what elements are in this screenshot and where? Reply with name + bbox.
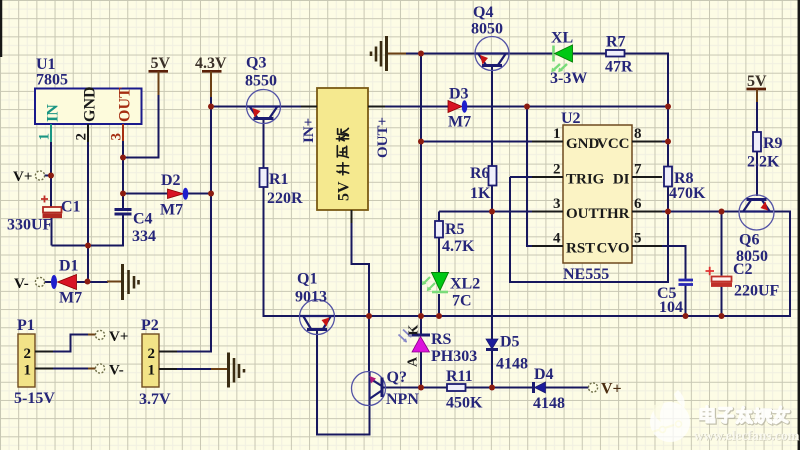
diode D3 M7 xyxy=(448,101,462,113)
svg-text:U1: U1 xyxy=(36,56,56,73)
diode D5 4148 xyxy=(486,339,498,349)
wire Vplus-port-stub xyxy=(45,175,52,177)
svg-text:330UF: 330UF xyxy=(7,217,53,234)
wire rail-4.3V-to-board-IN xyxy=(211,106,317,108)
svg-text:7: 7 xyxy=(634,162,642,178)
svg-text:D3: D3 xyxy=(449,86,469,103)
svg-text:V-: V- xyxy=(14,276,29,292)
U2 pin 1 GND xyxy=(532,141,563,143)
op-amp U1 7805 regulator box xyxy=(35,89,142,125)
wire Qx-base-to-R11 xyxy=(383,387,447,389)
svg-text:OUT: OUT xyxy=(117,87,134,122)
power rail 4.3V xyxy=(202,70,222,73)
power rail 5V (left) xyxy=(149,70,169,73)
svg-text:1: 1 xyxy=(148,363,156,379)
resistor R9 2.2K xyxy=(753,132,761,152)
ground (under P2) xyxy=(227,353,230,388)
svg-text:V+: V+ xyxy=(601,381,622,398)
svg-text:7805: 7805 xyxy=(36,72,68,89)
svg-text:4148: 4148 xyxy=(533,395,565,412)
U2 pin 7 DI xyxy=(632,176,662,178)
transistor Q6 8050 xyxy=(739,195,774,230)
wire board-bottom-jog xyxy=(352,222,370,316)
wire C4-bottom-left xyxy=(52,215,124,246)
resistor R1 220R xyxy=(260,168,268,187)
wire D3-net-to-RST xyxy=(527,107,532,247)
U2 pin 8 VCC xyxy=(632,141,662,143)
svg-text:NPN: NPN xyxy=(386,391,419,408)
junction at 721.5,316 xyxy=(719,313,725,319)
wire C5-to-rail xyxy=(685,286,687,317)
diode D2 M7 xyxy=(168,189,184,199)
svg-text:Q3: Q3 xyxy=(246,55,266,72)
U1 pin 3 OUT xyxy=(122,124,124,141)
wire D2-right xyxy=(184,193,211,195)
svg-text:Q?: Q? xyxy=(387,369,407,386)
svg-text:6: 6 xyxy=(634,196,642,212)
transistor Q4 8050 xyxy=(475,37,509,71)
svg-text:1: 1 xyxy=(553,126,561,142)
svg-text:2.2K: 2.2K xyxy=(747,154,780,171)
connector P1 xyxy=(18,334,35,387)
svg-text:450K: 450K xyxy=(446,395,483,412)
module 5V boost board xyxy=(317,88,368,210)
IC U2 NE555 xyxy=(563,125,632,263)
photodiode RS PH303 xyxy=(412,334,431,337)
svg-text:XL: XL xyxy=(551,30,573,47)
wire R8-bottom xyxy=(667,187,669,212)
wire Q4-to-XL xyxy=(509,53,553,55)
junction at 421,316 xyxy=(418,313,424,319)
svg-text:4: 4 xyxy=(553,231,561,247)
svg-text:M7: M7 xyxy=(59,290,82,307)
wire C1-bottom-down xyxy=(51,218,53,246)
svg-text:V-: V- xyxy=(109,363,124,379)
svg-text:PH303: PH303 xyxy=(431,348,477,365)
wire R5-to-XL2 xyxy=(438,238,440,273)
resistor R7 47R xyxy=(606,50,625,57)
svg-text:OUT+: OUT+ xyxy=(375,117,391,158)
junction at 123,157.5 xyxy=(120,155,126,161)
wire VCC-stub-right xyxy=(662,141,668,143)
wire Q1-emitter-loop xyxy=(317,331,370,435)
wire THR-to-Q6 xyxy=(662,211,739,213)
wire CVO-to-C5 xyxy=(662,246,686,279)
wire XL2-to-rail xyxy=(438,294,440,316)
svg-text:220UF: 220UF xyxy=(734,283,780,300)
svg-text:R7: R7 xyxy=(606,34,626,51)
ground (top, near Q4) xyxy=(385,36,388,71)
svg-text:5V: 5V xyxy=(151,55,171,72)
capacitor C2 220UF polarized xyxy=(706,267,715,275)
capacitor C5 104 xyxy=(679,279,694,282)
junction at 668,106.5 xyxy=(665,104,671,110)
svg-text:8050: 8050 xyxy=(471,21,503,38)
svg-text:Q4: Q4 xyxy=(473,4,493,21)
wire C2-top xyxy=(721,212,723,276)
svg-text:3: 3 xyxy=(109,133,125,141)
svg-text:3-3W: 3-3W xyxy=(550,70,587,87)
svg-text:GND: GND xyxy=(82,86,99,122)
watermark logo elecfans xyxy=(650,390,690,442)
svg-text:C4: C4 xyxy=(133,211,153,228)
junction at 211,193.5 xyxy=(208,191,214,197)
ground (left, near D1) xyxy=(121,264,124,300)
resistor R6 1K xyxy=(489,166,497,186)
wire top-rail-gnd-to-Q4 xyxy=(405,53,475,55)
svg-text:D2: D2 xyxy=(161,172,181,189)
junction at 421,141.5 xyxy=(418,139,424,145)
svg-text:THR: THR xyxy=(597,206,630,222)
junction at 88,245.5 xyxy=(85,243,91,249)
LED XL 3-3W xyxy=(552,46,555,62)
capacitor C4 334 xyxy=(115,208,132,211)
wire brown stubs near ports xyxy=(88,335,96,369)
wire rail-y316-common xyxy=(335,212,791,317)
U2 pin 6 THR xyxy=(632,211,662,213)
wire 5V-drop-to-U1-out xyxy=(123,94,159,158)
junction at 439,316 xyxy=(436,313,442,319)
wire Qx-collector-from-rail xyxy=(368,316,370,372)
diode D4 4148 xyxy=(532,382,535,393)
border frame artifact right edge xyxy=(798,0,800,450)
svg-text:104: 104 xyxy=(659,299,683,316)
ports V+/V- circles xyxy=(35,171,44,180)
wire U1-pin1-down xyxy=(50,141,52,207)
transistor Q? NPN xyxy=(352,372,386,406)
U1 pin 1 IN xyxy=(50,124,52,142)
wire rail-x211-down-to-P2 xyxy=(159,96,211,352)
wire board-OUT-to-D3 xyxy=(368,106,448,108)
junction at 527,106.5 xyxy=(524,104,530,110)
svg-text:DI: DI xyxy=(613,172,630,188)
wire TRIG-stub xyxy=(510,176,532,178)
junction at 87.5,281.5 xyxy=(85,279,91,285)
svg-text:1K: 1K xyxy=(470,185,491,202)
svg-text:U2: U2 xyxy=(561,110,581,127)
wire D1-to-gnd xyxy=(77,281,108,283)
svg-text:9013: 9013 xyxy=(295,289,327,306)
connector P2 xyxy=(142,334,159,387)
svg-text:R9: R9 xyxy=(763,135,783,152)
wire D2-left xyxy=(123,193,167,195)
svg-text:www.elecfans.com: www.elecfans.com xyxy=(694,428,800,443)
svg-text:R6: R6 xyxy=(470,165,490,182)
wire vertical-D3-net-x421 xyxy=(420,54,422,336)
wire 5V-to-R9 xyxy=(756,101,758,132)
wire P2-pin1-to-gnd xyxy=(176,368,211,370)
wire P1-pin1-to-Vminus xyxy=(52,368,88,370)
svg-text:RS: RS xyxy=(431,331,452,348)
svg-text:334: 334 xyxy=(132,228,156,245)
wire D3-to-R8-top xyxy=(466,106,668,108)
capacitor C1 330UF polarized xyxy=(41,196,48,203)
svg-text:470K: 470K xyxy=(669,185,706,202)
wire D5-bottom xyxy=(491,350,493,388)
svg-text:OUT: OUT xyxy=(566,206,599,222)
wire TRIG-loop-down-right-up xyxy=(510,177,668,282)
junction at 668,141.5 xyxy=(665,139,671,145)
svg-text:1: 1 xyxy=(37,133,53,141)
svg-text:R11: R11 xyxy=(446,368,473,385)
svg-text:5V: 5V xyxy=(747,73,767,90)
svg-text:D4: D4 xyxy=(534,366,554,383)
svg-text:7C: 7C xyxy=(452,293,472,310)
svg-text:CVO: CVO xyxy=(596,241,629,257)
svg-text:IN: IN xyxy=(45,104,62,122)
board pin bottom xyxy=(351,210,353,223)
junction at 369,316 xyxy=(366,313,372,319)
watermark text 电子发烧友 xyxy=(701,407,789,424)
wire R1-down-to-Q1-base xyxy=(264,187,301,316)
svg-text:C1: C1 xyxy=(61,199,81,216)
wire U1-pin2-chain xyxy=(87,141,89,282)
wire Q4-emitter-to-R6 xyxy=(491,66,493,166)
junction at 492,387.5 xyxy=(489,385,495,391)
svg-text:A: A xyxy=(406,356,421,367)
svg-text:XL2: XL2 xyxy=(450,276,480,293)
svg-text:5: 5 xyxy=(634,231,642,247)
svg-text:NE555: NE555 xyxy=(563,266,609,283)
svg-text:RST: RST xyxy=(566,241,595,257)
svg-text:4.7K: 4.7K xyxy=(442,238,475,255)
svg-text:47R: 47R xyxy=(605,59,633,76)
wire XL-to-R7 xyxy=(573,53,606,55)
LED XL2 7C xyxy=(432,273,449,291)
junction at 51,175.5 xyxy=(48,173,54,179)
wire U1-pin3-chain xyxy=(122,140,124,208)
border frame artifact left edge xyxy=(0,0,2,57)
svg-text:1: 1 xyxy=(24,363,32,379)
wire R7-corner-down xyxy=(625,54,669,107)
resistor R11 450K xyxy=(447,384,466,391)
svg-text:R1: R1 xyxy=(269,171,289,188)
svg-text:Q1: Q1 xyxy=(297,271,317,288)
svg-text:4.3V: 4.3V xyxy=(195,55,227,72)
svg-text:D1: D1 xyxy=(59,258,79,275)
svg-text:VCC: VCC xyxy=(597,136,630,152)
svg-text:2: 2 xyxy=(24,346,32,362)
svg-text:M7: M7 xyxy=(448,114,471,131)
svg-text:P2: P2 xyxy=(141,317,159,334)
svg-text:2: 2 xyxy=(148,346,156,362)
transistor Q3 8550 xyxy=(247,90,281,124)
svg-text:5V: 5V xyxy=(336,181,353,201)
wire R6-to-out-rail xyxy=(491,186,493,212)
wire R11-to-D4 xyxy=(465,387,533,389)
svg-text:M7: M7 xyxy=(160,202,183,219)
svg-text:IN+: IN+ xyxy=(301,118,317,143)
U2 pin 4 RST xyxy=(532,245,563,247)
wire Vminus-to-D1 xyxy=(45,281,52,283)
wire D5-top xyxy=(491,212,493,340)
svg-text:5-15V: 5-15V xyxy=(14,390,55,407)
transistor Q1 9013 xyxy=(300,300,335,335)
U2 pin 2 TRIG xyxy=(532,176,563,178)
svg-text:R5: R5 xyxy=(445,221,465,238)
U2 pin 5 CVO xyxy=(632,245,662,247)
board pin IN+ xyxy=(301,106,317,108)
resistor R8 470K xyxy=(664,167,672,187)
junction at 211,106.5 xyxy=(208,104,214,110)
svg-text:2: 2 xyxy=(74,133,90,141)
wire Q3-emitter-to-R1 xyxy=(263,119,265,169)
svg-text:GND: GND xyxy=(566,136,600,152)
junction at 421,53.5 xyxy=(418,51,424,57)
junction at 685.5,316 xyxy=(683,313,689,319)
junction at 123,193.5 xyxy=(120,191,126,197)
svg-text:V+: V+ xyxy=(109,329,128,345)
junction at 492,211.5 xyxy=(489,209,495,215)
svg-text:220R: 220R xyxy=(267,190,303,207)
svg-text:8550: 8550 xyxy=(245,73,277,90)
wire out-rail-to-U2-pin3 xyxy=(439,211,532,213)
svg-text:3.7V: 3.7V xyxy=(139,391,171,408)
wire P1-pin2-jog-to-Vplus xyxy=(52,335,88,352)
wire R8-top xyxy=(667,107,669,167)
svg-text:C2: C2 xyxy=(733,261,753,278)
wire D4-to-Vplus xyxy=(546,387,589,389)
svg-text:4148: 4148 xyxy=(496,356,528,373)
resistor R5 4.7K xyxy=(435,221,443,238)
svg-text:8: 8 xyxy=(634,126,642,142)
board pin OUT+ xyxy=(368,106,385,108)
junction at 668,211.5 xyxy=(665,209,671,215)
svg-text:TRIG: TRIG xyxy=(566,172,605,188)
svg-text:Q6: Q6 xyxy=(739,232,759,249)
U2 pin 3 OUT xyxy=(532,211,563,213)
junction at 421,387.5 xyxy=(418,385,424,391)
wire GND-wire-to-U2-pin1 xyxy=(421,141,532,143)
junction at 721.5,211.5 xyxy=(719,209,725,215)
wire R5-top-stub xyxy=(438,212,440,222)
power rail 5V (right) xyxy=(747,88,767,91)
svg-text:K: K xyxy=(407,325,422,336)
svg-text:2: 2 xyxy=(553,162,561,178)
U1 pin 2 GND xyxy=(87,124,89,142)
wire RS-anode-down-x421 xyxy=(420,352,422,388)
svg-text:V+: V+ xyxy=(13,169,32,185)
diode D1 M7 xyxy=(51,275,57,289)
wire R9-to-Q6 xyxy=(756,152,758,197)
wire C2-bottom xyxy=(721,287,723,317)
svg-text:3: 3 xyxy=(553,196,561,212)
svg-text:D5: D5 xyxy=(500,334,520,351)
svg-text:P1: P1 xyxy=(17,317,35,334)
